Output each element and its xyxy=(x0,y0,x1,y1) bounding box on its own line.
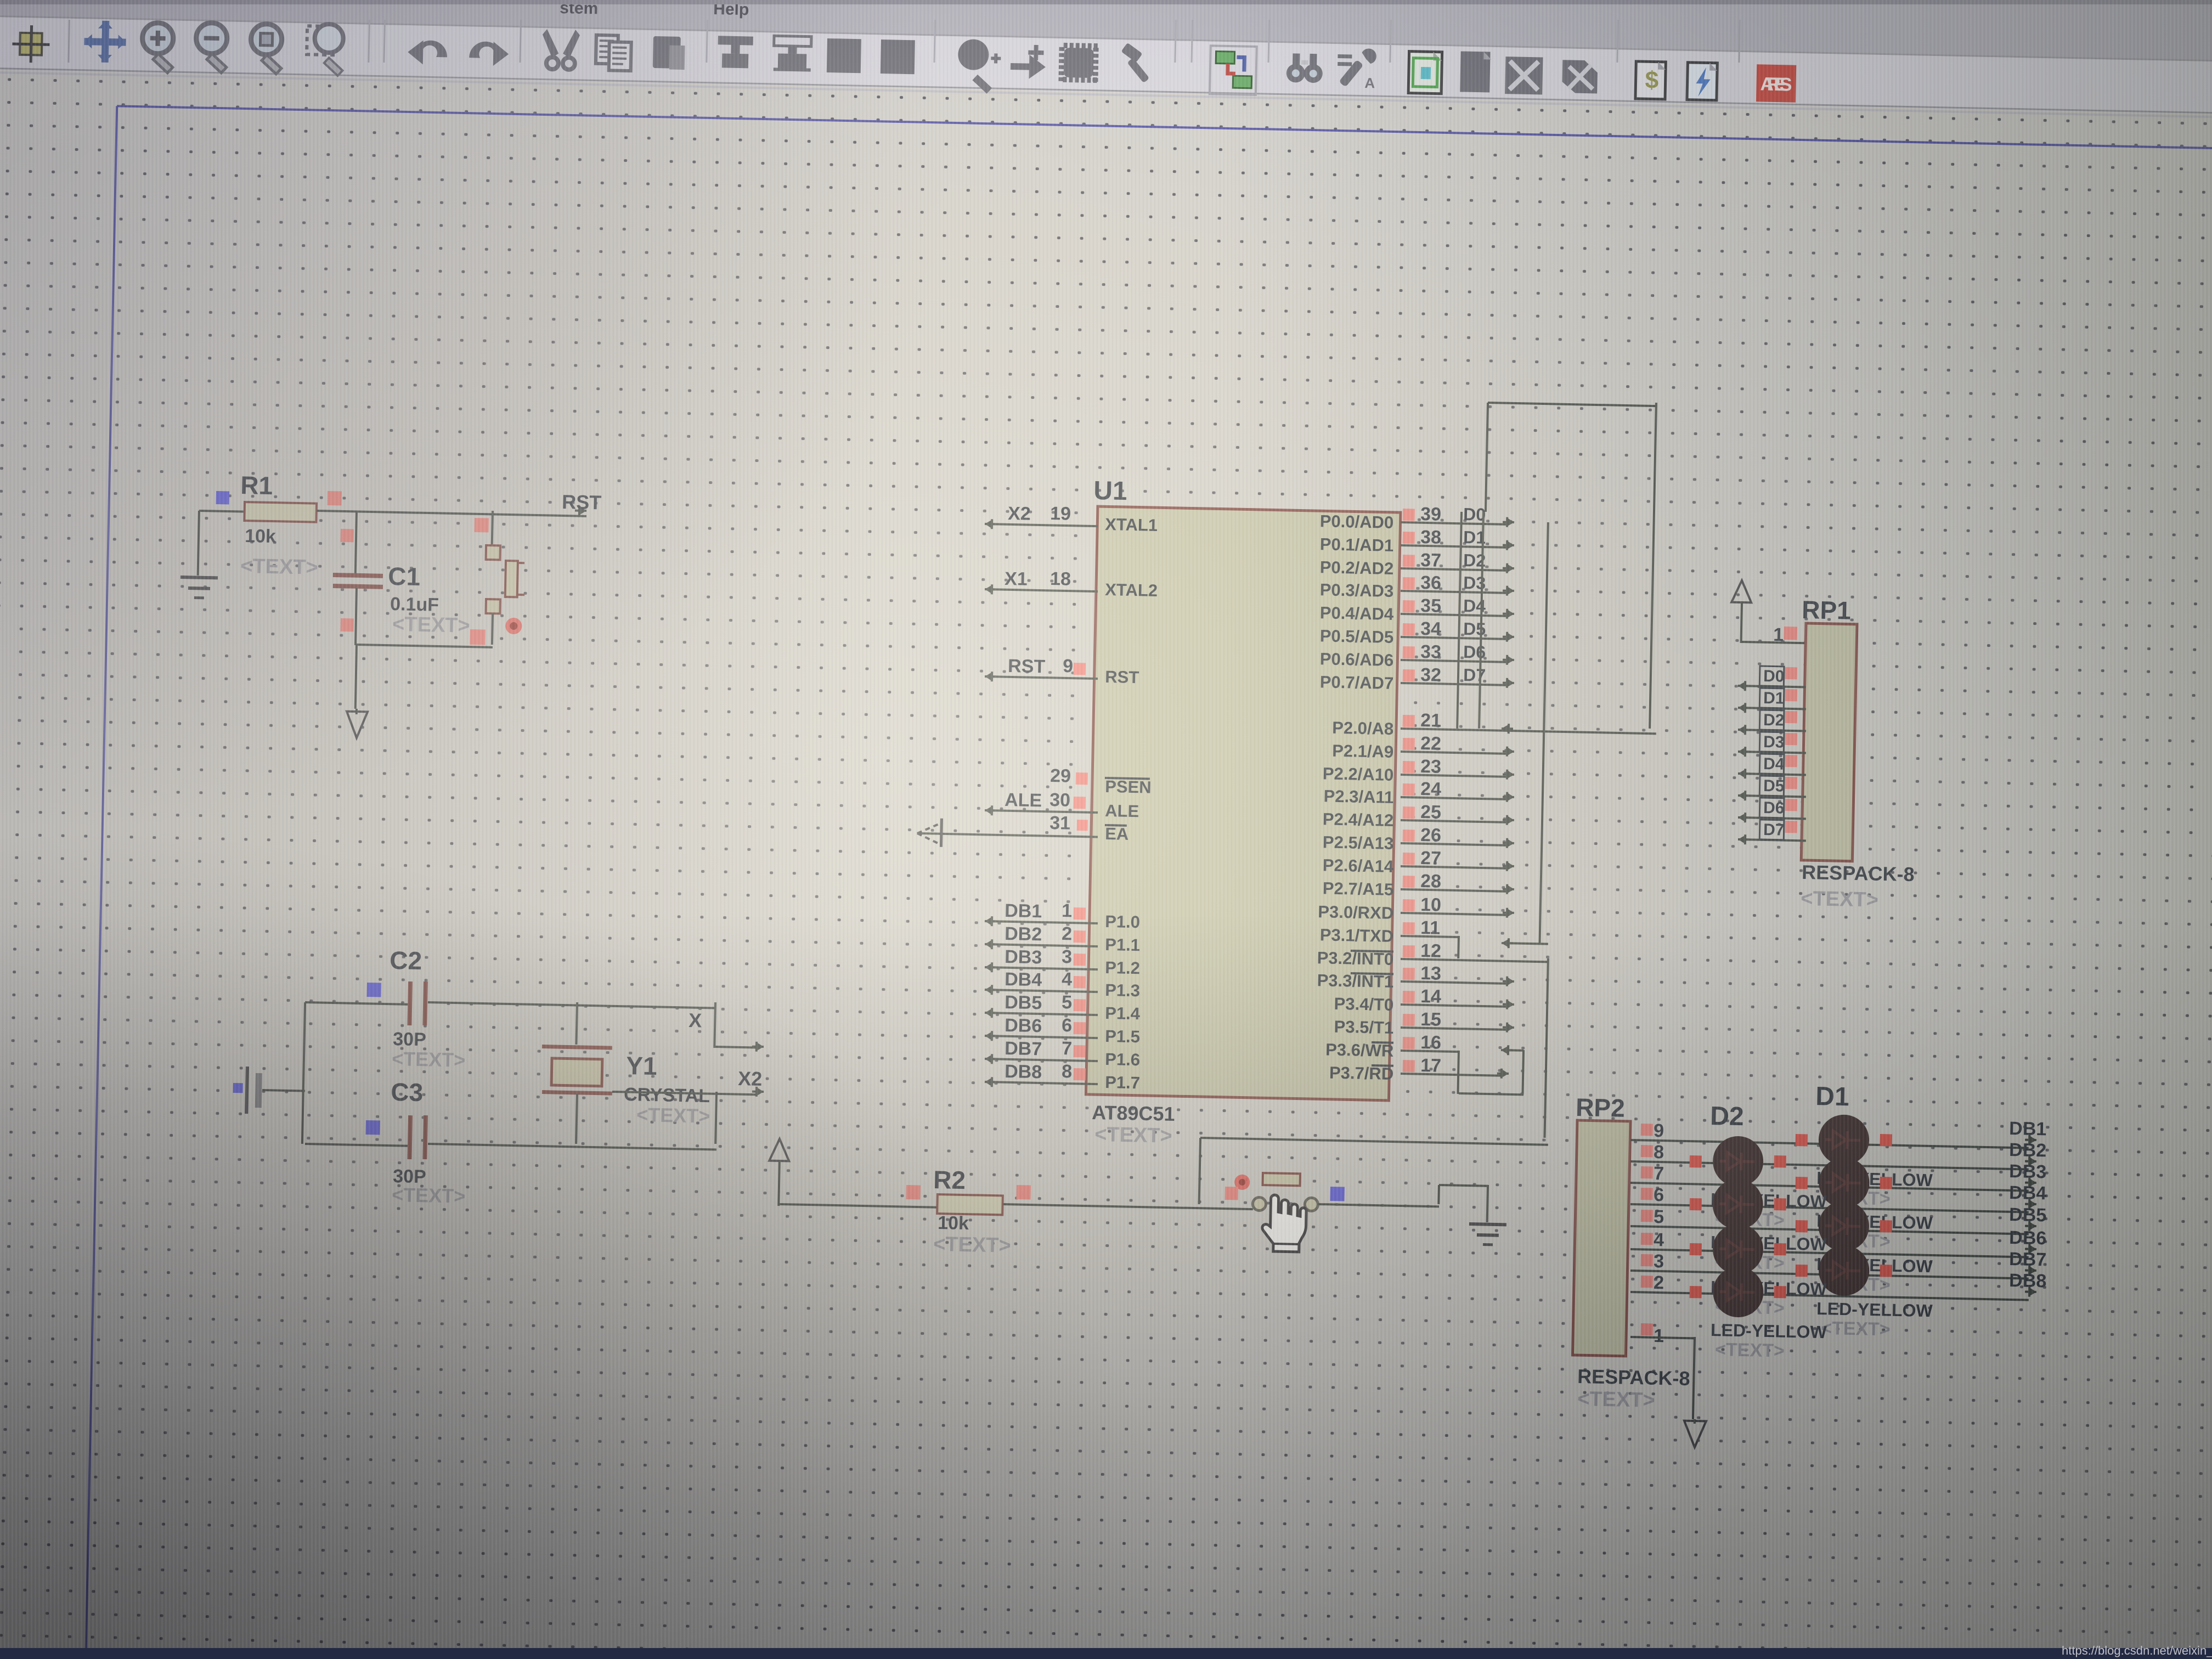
resistor R2 body xyxy=(937,1194,1003,1215)
wire loop rectangle above P2.0/A8 xyxy=(1488,402,1656,407)
wire RST to button top pad xyxy=(491,511,494,545)
pin 9 RST with net label RST xyxy=(985,675,1098,680)
wire jog to ground symbol xyxy=(1437,1185,1440,1204)
pin 18 XTAL2 with net label X1 xyxy=(985,588,1098,592)
blue origin markers of C2 and C3 xyxy=(366,983,381,997)
wire R2 to button S2 xyxy=(1003,1203,1253,1210)
pin 8 of RP1 with net label D6 xyxy=(1738,816,1806,820)
pin 2 of RP2 / wire net DB8 xyxy=(1630,1291,2029,1301)
power flag arrow left of R2 xyxy=(769,1139,789,1161)
svg-text:https://blog.csdn.net/weixin_4: https://blog.csdn.net/weixin_45790490 xyxy=(2062,1644,2212,1657)
wire bottom horizontal to button xyxy=(357,644,493,648)
pin 7 of RP2 / wire net DB3 xyxy=(1630,1182,2029,1192)
pin 39 P0.0/AD0 with net label D0 xyxy=(1401,521,1506,526)
pin 1 P1.0 with net label DB1 xyxy=(985,920,1098,924)
ground flag arrow below RP2 xyxy=(1684,1421,1706,1448)
pin 30 ALE xyxy=(985,809,1098,814)
push button S1 (reset) xyxy=(486,545,501,560)
resistor pack RP2 body xyxy=(1572,1120,1630,1356)
pin 7 P1.6 with net label DB7 xyxy=(985,1058,1098,1062)
wire X2 net stub with arrow xyxy=(612,1091,756,1096)
pin 2 of RP1 with net label D0 xyxy=(1738,685,1806,688)
pin 5 P1.4 with net label DB5 xyxy=(985,1012,1098,1016)
wire stub with arrow at row 11 xyxy=(1502,942,1548,945)
wire R1 left lead to ground xyxy=(199,510,245,513)
red highlight circle at button S1 xyxy=(505,618,522,635)
pin 7 of RP1 with net label D5 xyxy=(1738,794,1806,798)
wire X net stub with arrow xyxy=(715,1046,756,1048)
red pin markers of R2 xyxy=(906,1185,921,1200)
crystal Y1 xyxy=(542,1045,612,1050)
capacitor C1 plates xyxy=(333,573,383,578)
wire RP2 pin 1 to ground flag xyxy=(1630,1336,1695,1339)
wire C2 left segment xyxy=(305,1001,409,1006)
wire corner down to X stub xyxy=(713,1002,716,1048)
pin 32 P0.7/AD7 with net label D7 xyxy=(1401,682,1506,686)
pin 35 P0.4/AD4 with net label D4 xyxy=(1401,613,1506,617)
red and blue markers at button S2 xyxy=(1225,1187,1238,1200)
mouse hand cursor xyxy=(1262,1195,1307,1252)
wire INT0 net down from pin 12 to button xyxy=(1543,958,1549,1138)
pin 4 P1.3 with net label DB4 xyxy=(985,989,1098,993)
pin 3 P1.2 with net label DB3 xyxy=(985,966,1098,970)
blue origin marker of cell xyxy=(233,1083,243,1093)
wire from RST net down to C1 xyxy=(354,511,358,574)
ground symbol under R1 xyxy=(180,575,218,579)
wire C3 left segment xyxy=(305,1143,409,1147)
pin 36 P0.3/AD3 with net label D3 xyxy=(1401,590,1506,594)
wire C1 bottom xyxy=(354,588,358,645)
pin 9 of RP1 with net label D7 xyxy=(1738,838,1806,842)
capacitor cell element at far left xyxy=(245,1066,249,1114)
pin 34 P0.5/AD5 with net label D5 xyxy=(1401,636,1506,640)
pin 3 of RP2 / wire net DB7 xyxy=(1630,1269,2029,1280)
wire power flag to R2 xyxy=(780,1203,938,1209)
pin 38 P0.1/AD1 with net label D1 xyxy=(1401,544,1506,549)
pin 5 of RP2 / wire net DB5 xyxy=(1630,1225,2029,1235)
red pin markers around R1/C1/S1 xyxy=(327,491,342,506)
pin 6 of RP2 / wire net DB4 xyxy=(1630,1203,2029,1214)
wire button bottom pad down xyxy=(491,613,494,645)
red highlight circle at button S2 xyxy=(1234,1175,1250,1190)
ground symbol right of button S2 xyxy=(1469,1222,1506,1226)
wire C2 to crystal top / X stub xyxy=(428,1001,715,1009)
pin 4 of RP2 / wire net DB6 xyxy=(1630,1248,2029,1259)
resistor R1 body xyxy=(244,502,317,522)
wire power flag to RP1 pin 1 xyxy=(1740,601,1743,643)
pin 4 of RP1 with net label D2 xyxy=(1738,729,1806,732)
pin 31 EA with left arrow flag xyxy=(919,832,1098,838)
pin 6 of RP1 with net label D4 xyxy=(1738,772,1806,776)
wire long vertical bus right of U1 xyxy=(1539,522,1549,943)
pin 37 P0.2/AD2 with net label D2 xyxy=(1401,567,1506,572)
capacitor C3 plates xyxy=(407,1115,413,1159)
push button S2 (INT0) xyxy=(1252,1197,1266,1210)
resistor pack RP1 body xyxy=(1801,623,1857,861)
pin 9 of RP2 / wire net DB1 xyxy=(1630,1139,2029,1149)
wire left vertical joining C2 and C3 xyxy=(301,1002,306,1144)
wire down to ground flag xyxy=(354,645,358,709)
pin 1 of RP2 xyxy=(1641,1323,1653,1335)
pin 33 P0.6/AD6 with net label D6 xyxy=(1401,659,1506,663)
pin 3 of RP1 with net label D1 xyxy=(1738,707,1806,710)
pin 8 P1.7 with net label DB8 xyxy=(985,1081,1098,1085)
wire C3 to crystal bottom xyxy=(428,1143,716,1151)
pin 6 P1.5 with net label DB6 xyxy=(985,1035,1098,1039)
wire button S2 to ground jog xyxy=(1318,1203,1439,1207)
wire corner X2 stub to bottom xyxy=(714,1092,718,1144)
wire crystal stubs xyxy=(575,1002,578,1045)
pin 2 P1.1 with net label DB2 xyxy=(985,943,1098,947)
capacitor C2 plates xyxy=(407,981,413,1025)
pin 19 XTAL1 with net label X2 xyxy=(985,523,1098,527)
power flag arrow above RP1 xyxy=(1731,580,1752,603)
pin 5 of RP1 with net label D3 xyxy=(1738,751,1806,754)
pin 8 of RP2 / wire net DB2 xyxy=(1630,1160,2029,1171)
wire vertical pair through D0-D7 labels xyxy=(1456,512,1463,729)
mcu U1 AT89C51 body xyxy=(1086,506,1400,1101)
wire RST net from R1 to label xyxy=(317,510,586,517)
wire cell to C2/C3 junction xyxy=(262,1089,305,1092)
blue origin marker of R1 xyxy=(216,491,229,504)
ground flag arrow under C1 xyxy=(346,712,368,738)
